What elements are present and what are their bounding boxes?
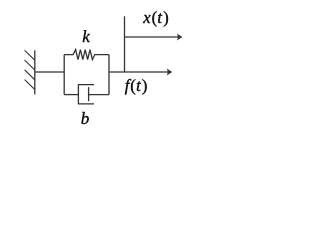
damper b cylinder [78, 85, 94, 104]
wire node to damper [64, 94, 78, 96]
svg-text:b: b [81, 109, 90, 128]
vertical reference line [124, 16, 126, 72]
arrowhead f(t) [167, 69, 173, 76]
svg-text:x(t): x(t) [142, 8, 168, 27]
svg-text:k: k [82, 27, 90, 46]
arrow shaft x(t) [125, 36, 180, 38]
damper rod [89, 94, 109, 96]
spring k (top rail) [64, 50, 109, 60]
wall hatch 4 [25, 80, 35, 90]
wire wall to node [35, 71, 64, 73]
wall hatch 1 [25, 50, 35, 60]
wall support [34, 50, 36, 94]
wall hatch 2 [25, 60, 35, 70]
wall hatch 3 [25, 70, 35, 80]
arrowhead x(t) [177, 34, 183, 41]
right bar [108, 55, 110, 95]
left bar [63, 55, 65, 95]
svg-text:f(t): f(t) [125, 76, 148, 95]
wire f(t) [109, 71, 169, 73]
damper piston [88, 87, 90, 101]
